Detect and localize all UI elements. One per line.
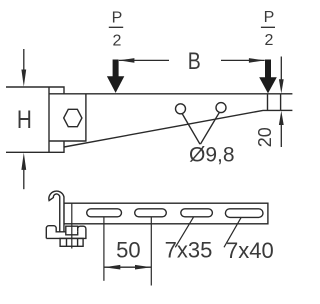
svg-text:7x40: 7x40 — [226, 238, 274, 263]
svg-text:Ø9,8: Ø9,8 — [189, 143, 235, 166]
svg-text:H: H — [17, 106, 32, 134]
svg-text:2: 2 — [113, 32, 122, 49]
svg-text:B: B — [188, 48, 201, 75]
svg-text:20: 20 — [255, 127, 275, 147]
svg-text:50: 50 — [116, 237, 140, 262]
svg-text:7x35: 7x35 — [165, 237, 213, 262]
svg-text:2: 2 — [265, 32, 274, 49]
svg-text:P: P — [112, 10, 123, 27]
svg-text:P: P — [264, 9, 275, 26]
